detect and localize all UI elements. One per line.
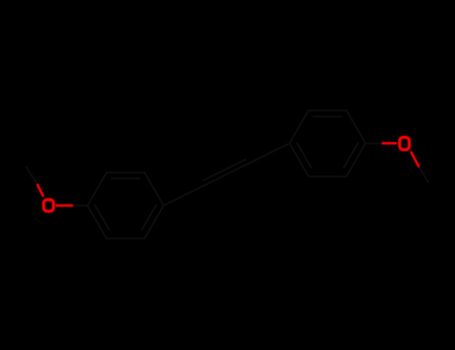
benzene ring right — [290, 110, 366, 176]
aromatic inner line bottom-left, right ring — [297, 143, 311, 167]
methyl bond dark half, right — [419, 166, 428, 182]
benzene ring left — [88, 173, 164, 239]
aromatic inner line top, left ring — [112, 177, 140, 179]
C-O bond dark half, left ring side — [72, 204, 88, 206]
chain bond ring-C1 — [164, 185, 206, 206]
aromatic inner line bottom-left, left ring — [95, 205, 109, 229]
double bond C1=C2 — [206, 164, 248, 185]
oxygen O right — [400, 137, 410, 149]
oxygen O left — [44, 200, 54, 212]
aromatic inner line top, right ring — [314, 115, 342, 117]
C-O bond dark half, right ring side — [366, 142, 383, 144]
aromatic inner line bottom-right, right ring — [344, 143, 358, 167]
red half bond O-methyl, right — [411, 152, 418, 166]
methyl bond dark half, left — [26, 167, 37, 185]
double bond C1=C2 parallel line — [203, 160, 245, 181]
red half bond O-methyl, left — [38, 185, 43, 196]
red half bond O-ring, right — [383, 142, 396, 145]
aromatic inner line bottom-right, left ring — [142, 205, 156, 229]
chain bond C2-ring — [248, 143, 290, 164]
red half bond O-ring, left — [57, 204, 73, 207]
